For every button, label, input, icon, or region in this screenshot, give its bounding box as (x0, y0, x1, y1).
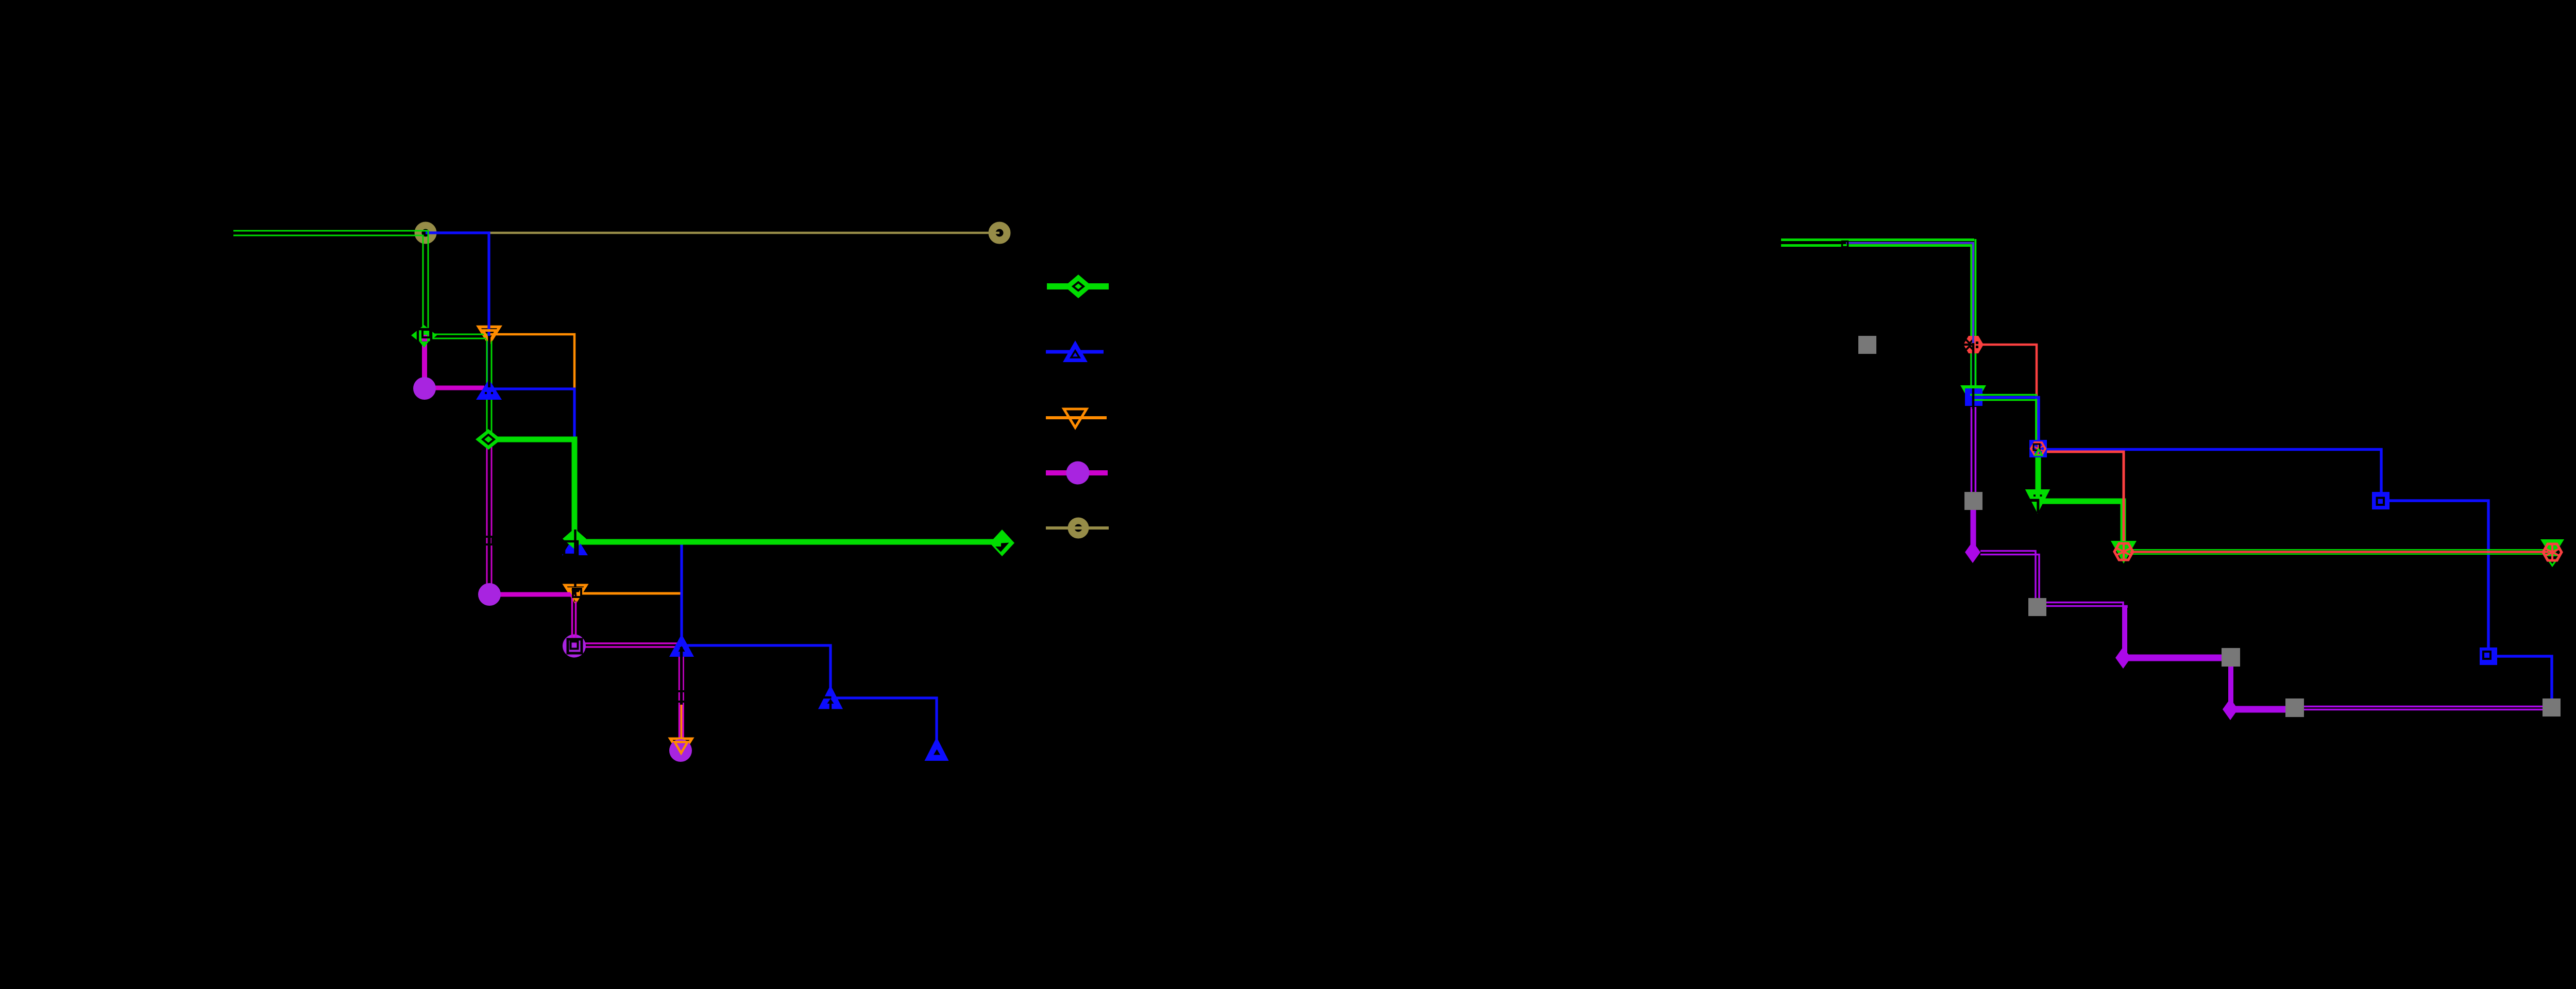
magenta thick v to D1 (1971, 504, 1976, 548)
black dots in V1 (2033, 494, 2036, 497)
legend green line (1047, 283, 1109, 289)
orange open triangle-down O2 outer (565, 585, 586, 602)
indigo overlay into H1 (1972, 335, 1974, 344)
magenta pair below T1 a (1971, 407, 1973, 498)
magenta diamond D2 (2223, 698, 2238, 720)
magenta circle M4 (669, 739, 692, 762)
black vertical through H1 and T1 (1972, 343, 1975, 408)
red spokes H4 (2544, 544, 2561, 560)
legend olive donut (1071, 521, 1086, 535)
black vertical over blue below O1 (488, 336, 490, 387)
green thin line A (233, 231, 492, 439)
legend olive line (1046, 526, 1109, 530)
green thin line R-green1 vertical (1974, 239, 1976, 394)
black open square inside H2 (2033, 444, 2040, 450)
blue triangle B3 (818, 685, 843, 709)
small green triangle outline in H2 (2035, 449, 2042, 455)
black line v inside B3 (829, 703, 832, 710)
green thin line R-green mid upper (1971, 395, 2036, 449)
magenta circle M2 (478, 583, 501, 606)
blue square H2 (2029, 440, 2047, 457)
magenta line L-magenta thick h1 (425, 386, 484, 390)
black open square on magenta pair (485, 537, 493, 544)
legend magenta circle (1066, 462, 1090, 485)
green thin line R-green2 horizontal (1781, 244, 1972, 247)
magenta pair h to G5 a (2295, 706, 2551, 708)
magenta line L-magenta thick v1 (422, 335, 427, 388)
green thin line B (233, 235, 487, 439)
black dots in H1 (1976, 342, 1978, 344)
red spokes H2 (2032, 442, 2044, 455)
black filled triangle inside B3 (827, 699, 834, 704)
blue line L-blue (426, 233, 937, 749)
black filled triangle inside B2 (679, 646, 685, 652)
black open square at O2 (573, 589, 581, 597)
magenta line L-magenta pair v2a (486, 390, 488, 593)
gray square G2 (2028, 598, 2046, 616)
green filled v marker H3 (2111, 541, 2137, 564)
orange open triangle-down O1 outer (479, 327, 500, 344)
magenta pair below T1 b (1975, 407, 1977, 498)
magenta line L-magenta pair v4a (679, 645, 681, 751)
magenta pair h to G5 b (2295, 709, 2551, 711)
black slit h in V1 (2029, 499, 2040, 502)
legend magenta line (1046, 470, 1108, 475)
orange open triangle-down O3 outer (670, 739, 692, 756)
green diamond G3 (563, 528, 586, 549)
magenta circle M3 (563, 635, 586, 658)
green filled v marker end (2540, 539, 2564, 558)
black open square inside Bsq2 (2377, 498, 2384, 505)
magenta line L-magenta thick h2 (489, 592, 573, 597)
black check cutout inside G4 (995, 543, 1009, 552)
magenta line L-magenta pair h3a (574, 642, 682, 644)
red spokes H3 (2115, 543, 2132, 560)
red line R-red seg1 (1973, 345, 2037, 449)
magenta pair h after G2 b (2039, 606, 2127, 608)
legend black open triangle inside blue (1071, 351, 1079, 357)
black open square on trunk (1842, 242, 1848, 247)
blue square Bsq2 (2372, 492, 2389, 509)
thick green line L-green-thick (488, 439, 999, 542)
black open square small inside M3 (571, 642, 578, 649)
green v end lower outline (2545, 555, 2560, 566)
orange open triangle-down O3 base (670, 739, 692, 756)
magenta diamond D1 (1965, 541, 1980, 563)
orange line L-orange seg1 (426, 233, 489, 334)
black open square big at G3 junction (564, 541, 578, 555)
gray square G2b (2222, 648, 2240, 667)
orange open triangle-down O1 inner (483, 331, 497, 342)
magenta circle M1 (413, 377, 436, 400)
green triangle-down T1 (1960, 385, 1986, 408)
legend blue triangle (1063, 340, 1088, 362)
magenta pair overlay into M3 a (571, 634, 573, 642)
black open square inside Bsq3 (2483, 652, 2490, 659)
green thin line R-green1 horizontal (1781, 238, 1974, 241)
legend orange line (1046, 416, 1107, 419)
magenta line L-magenta pair h3b (574, 646, 682, 648)
blue square at T1 (1965, 388, 1982, 406)
green thin line R-green2 vertical (1970, 244, 1972, 394)
magenta line L-magenta pair v2b (491, 390, 493, 593)
red hexagon H1 filled (1963, 336, 1984, 353)
green diamond G1 (411, 325, 437, 346)
magenta thick h to G3 (2230, 706, 2295, 713)
orange line L-orange seg3 (575, 593, 682, 747)
blue triangle B1 (476, 379, 502, 400)
magenta thick v to D1b (2122, 607, 2127, 653)
gray square G1 (1964, 492, 1982, 510)
green thin line R-green end upper (2124, 549, 2552, 551)
legend green diamond (1064, 275, 1092, 298)
legend blue line (1046, 350, 1104, 354)
black open square small at G1 (422, 330, 430, 337)
black open square below B2 on magenta pair (675, 691, 686, 702)
black open diamond inside G2 (483, 435, 494, 444)
orange open triangle-down O2 inner (569, 589, 582, 600)
black open square big at G1 (418, 329, 431, 343)
olive donut marker start (418, 226, 433, 241)
green diamond G1 bottom apex overlay (419, 342, 429, 348)
gray square lone (1858, 336, 1876, 354)
black line h inside B3 (822, 696, 832, 699)
legend orange open triangle-down (1064, 409, 1087, 428)
red line R-red seg3 (2124, 551, 2552, 553)
black filled triangle inside B4 (934, 749, 940, 755)
magenta thick v to D2 (2228, 658, 2233, 705)
red line R-red seg2 (2038, 452, 2124, 553)
red open hexagon H2 (2031, 442, 2045, 455)
green thick line R-green-thick h1 (2035, 501, 2123, 547)
black vertical line over G3 junction (574, 530, 577, 602)
magenta line L-magenta pair v3a (571, 594, 573, 644)
magenta line L-magenta pair v3b (575, 594, 577, 644)
blue triangle B1.5 (562, 535, 588, 555)
red open hexagon H4 (2543, 544, 2562, 560)
blue triangle B2 (669, 634, 694, 657)
black vertical line below B2 (680, 647, 683, 705)
indigo line R-blueviolet (1846, 243, 1973, 344)
magenta thick h to G2b (2123, 655, 2231, 661)
olive donut marker end (992, 226, 1007, 241)
blue triangle B4 (925, 737, 949, 761)
green mid overlay lower over T1 square (1972, 399, 1984, 401)
blue line R-blue (1973, 345, 2552, 707)
gray square G3 (2285, 698, 2304, 717)
green diamond G2 (476, 429, 501, 450)
orange line L-orange seg2 (489, 334, 574, 389)
green filled v marker V1 (2025, 489, 2050, 514)
red open hexagon H3 (2114, 543, 2133, 560)
magenta pair h after D1 a (1980, 551, 2036, 605)
magenta pair overlay into M3 b (575, 634, 577, 644)
magenta pair h after D1 b (1980, 555, 2039, 605)
black vertical over T1 square (1972, 388, 1975, 409)
black open square big inside M3 (568, 639, 582, 653)
black slit v in V1 (2037, 499, 2039, 513)
magenta line L-magenta pair v4b (682, 645, 684, 751)
magenta diamond D1b (2115, 647, 2131, 669)
orange open triangle-down O3 inner (675, 742, 688, 754)
gray square G5 (2543, 698, 2561, 717)
green thin line R-green mid lower (1974, 400, 2036, 444)
green mid overlay upper over T1 square (1970, 394, 1984, 396)
black chevrons in H1 (1966, 339, 1974, 350)
black dots inside B1 (485, 392, 487, 394)
legend black open diamond inside green (1073, 282, 1083, 291)
blue square Bsq3 (2480, 647, 2497, 665)
green thin line R-green end lower (2124, 553, 2552, 555)
green thick line R-green-thick v1 (2036, 455, 2041, 490)
olive line L-olive (426, 232, 999, 234)
black connector bit left of hexagon H1 (1959, 344, 1973, 346)
green diamond G4 (990, 530, 1014, 556)
magenta pair h after G2 a (2039, 603, 2123, 608)
